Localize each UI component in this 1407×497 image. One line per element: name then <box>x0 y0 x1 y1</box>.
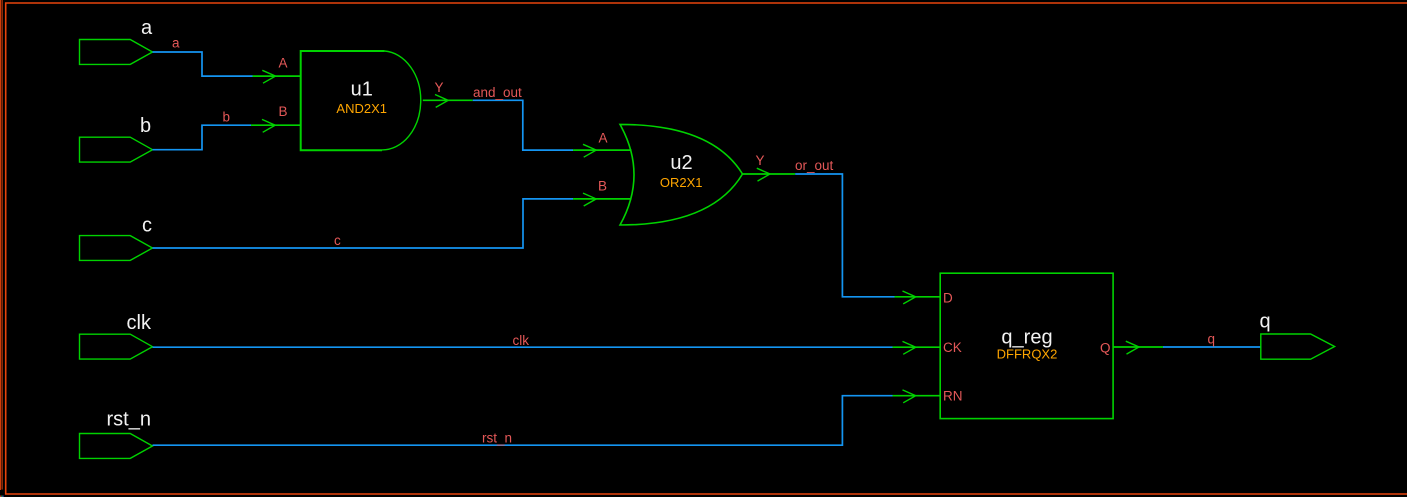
svg-text:u1: u1 <box>351 79 373 101</box>
svg-text:q: q <box>1260 311 1271 333</box>
pin stub A u2 <box>573 149 632 151</box>
svg-text:q: q <box>1208 332 1216 347</box>
pin stub B u1 <box>251 124 301 126</box>
svg-text:rst_n: rst_n <box>482 430 512 445</box>
svg-text:u2: u2 <box>670 152 692 174</box>
arrow out of Q q_reg <box>1126 341 1139 354</box>
input port a <box>80 40 153 65</box>
svg-text:b: b <box>140 115 151 137</box>
svg-text:b: b <box>223 110 231 125</box>
svg-text:q_reg: q_reg <box>1001 327 1052 349</box>
svg-text:rst_n: rst_n <box>107 409 151 431</box>
wire and_out <box>473 100 573 150</box>
svg-text:a: a <box>141 17 153 39</box>
wire clk <box>153 346 893 348</box>
svg-text:or_out: or_out <box>795 158 834 173</box>
arrow out of Y u1 <box>435 95 448 108</box>
svg-text:D: D <box>943 290 953 305</box>
arrow into A u1 <box>262 70 275 83</box>
svg-text:a: a <box>172 36 180 51</box>
pin stub CK q_reg <box>893 346 941 348</box>
svg-text:B: B <box>279 104 288 119</box>
input port clk <box>80 334 153 359</box>
or gate u2 <box>620 124 743 225</box>
svg-text:Y: Y <box>435 80 444 95</box>
svg-text:B: B <box>598 179 607 194</box>
wire a <box>153 52 253 76</box>
dff q_reg <box>940 273 1113 418</box>
input port c <box>80 236 153 261</box>
and gate u1 <box>301 51 385 150</box>
pin stub RN q_reg <box>893 395 941 397</box>
input port rst_n <box>80 434 153 459</box>
outer window edge line left <box>0 0 1 490</box>
wire c <box>153 199 574 248</box>
pin stub B u2 <box>573 198 632 200</box>
output port q <box>1261 334 1335 359</box>
svg-text:CK: CK <box>943 340 962 355</box>
svg-text:clk: clk <box>513 333 530 348</box>
svg-text:OR2X1: OR2X1 <box>660 175 703 190</box>
svg-text:A: A <box>279 56 288 71</box>
arrow into RN q_reg <box>903 390 916 403</box>
svg-text:A: A <box>599 131 608 146</box>
svg-text:and_out: and_out <box>473 85 522 100</box>
svg-text:Q: Q <box>1100 341 1111 356</box>
pin stub D q_reg <box>895 296 941 298</box>
svg-text:DFFRQX2: DFFRQX2 <box>997 347 1058 362</box>
arrow into B u1 <box>262 119 275 132</box>
wire q <box>1163 346 1261 348</box>
arrow out of Y u2 <box>757 168 770 181</box>
window resize grip pixels bottom-left <box>0 496 4 497</box>
arrow into D q_reg <box>903 291 916 304</box>
input port b <box>80 137 153 162</box>
svg-text:c: c <box>334 233 341 248</box>
pin stub Y u2 <box>743 173 796 175</box>
pin stub Q q_reg <box>1113 346 1163 348</box>
svg-text:clk: clk <box>127 312 152 334</box>
svg-text:RN: RN <box>943 389 963 404</box>
outer window edge line 2 <box>1 0 3 490</box>
wire b <box>153 125 252 150</box>
svg-text:AND2X1: AND2X1 <box>336 101 387 116</box>
arrow into A u2 <box>583 144 596 157</box>
arrow into CK q_reg <box>903 341 916 354</box>
pin stub Y u1 <box>423 99 473 101</box>
svg-text:Y: Y <box>756 153 765 168</box>
wire rst_n <box>153 396 893 446</box>
svg-text:c: c <box>142 215 152 237</box>
pin stub A u1 <box>253 75 301 77</box>
wire or_out <box>795 174 894 297</box>
arrow into B u2 <box>583 193 596 206</box>
